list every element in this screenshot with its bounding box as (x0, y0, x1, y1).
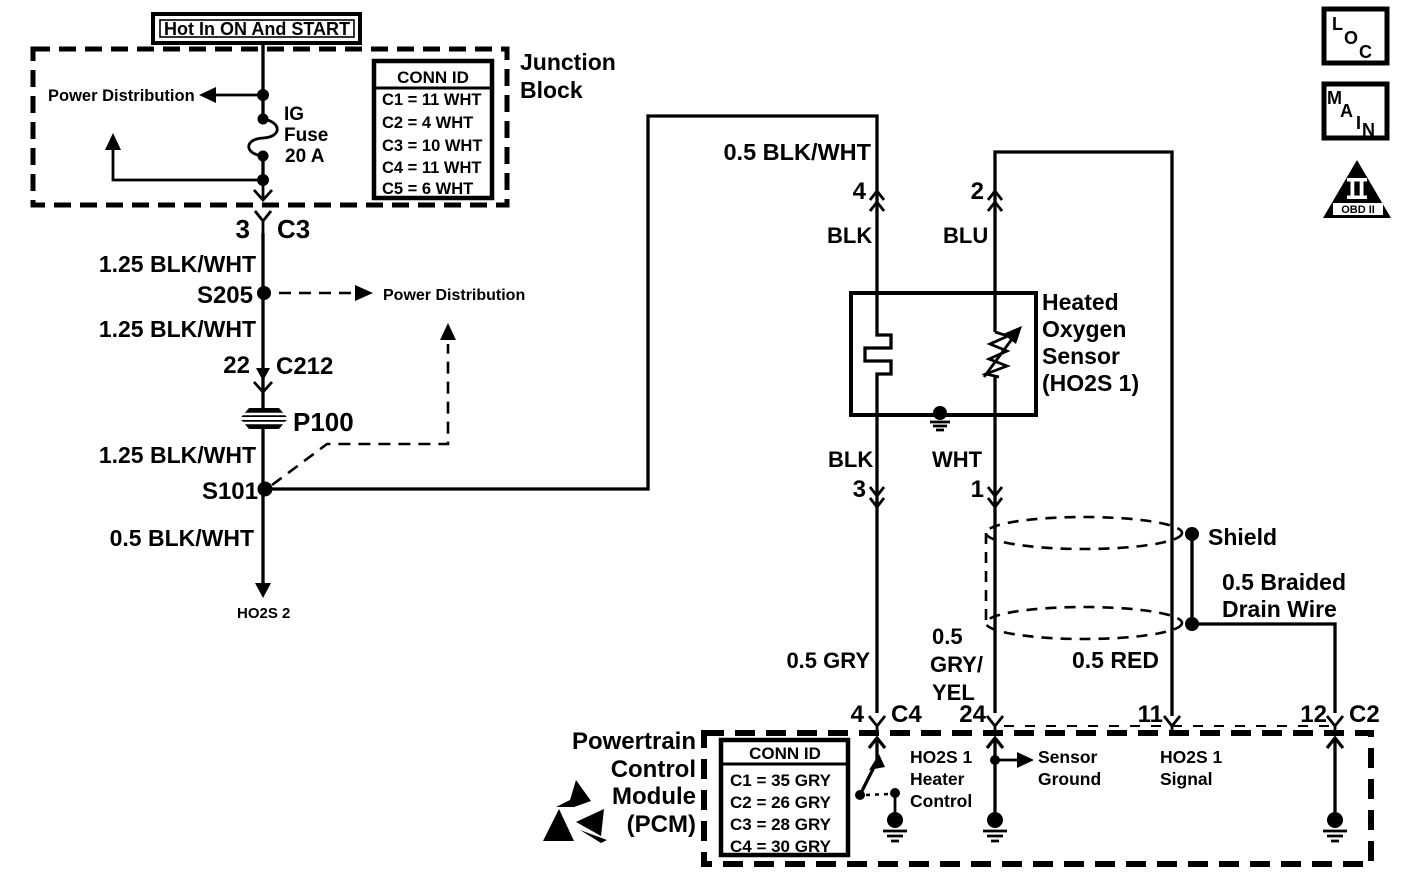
svg-text:20 A: 20 A (285, 146, 325, 167)
svg-text:3: 3 (236, 214, 250, 244)
sensor zigzag element (986, 332, 1008, 377)
connector cup pin 11 (1164, 716, 1180, 734)
svg-text:2: 2 (971, 178, 984, 205)
heater element (square meander) (865, 293, 891, 415)
svg-text:Shield: Shield (1208, 524, 1277, 550)
arrow up (lower-left branch) (105, 133, 121, 150)
label HO2S 1 Heater Control (910, 747, 973, 811)
PCM sensor ground (pin 24) (987, 738, 1034, 812)
svg-text:12: 12 (1300, 701, 1327, 728)
svg-text:Heated: Heated (1042, 289, 1119, 315)
svg-text:Signal: Signal (1160, 769, 1213, 789)
svg-text:O: O (1344, 28, 1358, 48)
wire S101 to heater circuit (right, up, right) (265, 116, 877, 489)
svg-text:I: I (1356, 113, 1361, 133)
svg-text:C4 = 30 GRY: C4 = 30 GRY (730, 837, 832, 856)
wire WHT below sensor to PCM pin 24 (993, 415, 996, 713)
svg-text:C3 = 28 GRY: C3 = 28 GRY (730, 815, 832, 834)
OBD II triangle symbol (1323, 160, 1391, 218)
svg-text:HO2S 1: HO2S 1 (1160, 747, 1223, 767)
svg-text:Powertrain: Powertrain (572, 728, 696, 755)
svg-text:4: 4 (853, 178, 867, 205)
svg-text:IG: IG (284, 104, 304, 125)
svg-text:0.5 BLK/WHT: 0.5 BLK/WHT (110, 525, 254, 551)
svg-text:0.5 GRY: 0.5 GRY (786, 648, 870, 673)
arrow to Power Distribution (left) (199, 87, 216, 103)
svg-text:Fuse: Fuse (284, 125, 328, 146)
svg-text:WHT: WHT (932, 447, 983, 472)
svg-text:C3: C3 (277, 214, 310, 244)
svg-text:0.5 BLK/WHT: 0.5 BLK/WHT (723, 139, 871, 165)
svg-text:CONN ID: CONN ID (397, 68, 469, 87)
svg-text:Block: Block (520, 77, 583, 103)
grommet P100 (236, 408, 292, 429)
ground (heater control) (883, 812, 907, 841)
connector cup pin 24 (987, 716, 1003, 734)
svg-text:C5 = 6 WHT: C5 = 6 WHT (382, 180, 473, 198)
svg-text:Power Distribution: Power Distribution (383, 287, 525, 304)
svg-text:(PCM): (PCM) (627, 811, 696, 838)
svg-text:11: 11 (1138, 701, 1163, 728)
dashed route S101 to power distribution arrow (272, 323, 456, 485)
label Sensor Ground (1038, 747, 1101, 789)
svg-text:1.25 BLK/WHT: 1.25 BLK/WHT (99, 316, 256, 342)
svg-text:4: 4 (851, 701, 865, 728)
svg-text:22: 22 (223, 352, 250, 379)
sensor element wire WHT inside box (993, 293, 996, 415)
svg-text:HO2S 2: HO2S 2 (237, 605, 290, 622)
svg-text:Module: Module (612, 783, 696, 810)
MAIN symbol box (1324, 84, 1387, 140)
label HO2S 1 Signal (1160, 747, 1223, 789)
svg-text:S205: S205 (197, 282, 253, 309)
splice S205 dot (257, 286, 271, 300)
svg-text:P100: P100 (293, 407, 354, 437)
svg-text:S101: S101 (202, 478, 258, 505)
wire braided drain to PCM pin 12 (1192, 624, 1335, 713)
svg-text:1: 1 (971, 476, 984, 503)
PCM signal input (pin 12) (1327, 738, 1343, 812)
value label IG Fuse 20 A (284, 104, 328, 167)
svg-text:OBD II: OBD II (1341, 204, 1375, 216)
svg-text:C4: C4 (891, 701, 922, 728)
svg-text:Junction: Junction (520, 49, 616, 75)
splice S101 dot (258, 482, 273, 497)
svg-text:Hot In ON And START: Hot In ON And START (164, 19, 350, 39)
connector chevrons down (3) (870, 487, 884, 507)
svg-text:Power Distribution: Power Distribution (48, 87, 195, 105)
svg-text:N: N (1362, 120, 1375, 140)
svg-text:1.25 BLK/WHT: 1.25 BLK/WHT (99, 251, 256, 277)
PCM heater control driver (pin 4) (855, 738, 900, 812)
svg-text:24: 24 (959, 701, 986, 728)
junction block label (520, 49, 616, 103)
wire power distribution branch (209, 94, 263, 97)
arrow down into C3 (254, 180, 272, 200)
svg-text:C1 = 11 WHT: C1 = 11 WHT (382, 91, 482, 109)
svg-text:0.5 RED: 0.5 RED (1072, 647, 1159, 673)
connector C2 face dashed line (1004, 725, 1330, 727)
sensor case ground symbol (930, 422, 950, 430)
shield connection dots and link (1185, 527, 1199, 631)
connector chevrons (4) (870, 191, 884, 211)
svg-text:C: C (1359, 42, 1372, 62)
sensor case ground dot (933, 406, 947, 420)
svg-text:BLU: BLU (943, 223, 988, 248)
svg-text:GRY/: GRY/ (930, 652, 983, 677)
svg-text:HO2S 1: HO2S 1 (910, 747, 973, 767)
svg-text:BLK: BLK (828, 447, 873, 472)
svg-text:Sensor: Sensor (1038, 747, 1098, 767)
ground (signal) (1323, 812, 1347, 841)
svg-text:CONN ID: CONN ID (749, 744, 821, 763)
node power-distribution branch dot (257, 89, 269, 101)
PCM dashed box (704, 733, 1371, 864)
svg-text:C2 = 26 GRY: C2 = 26 GRY (730, 793, 832, 812)
sensor arrow diagonal (984, 326, 1022, 377)
svg-text:3: 3 (853, 476, 866, 503)
wire BLK below sensor to PCM pin 4 (875, 415, 878, 713)
svg-text:1.25 BLK/WHT: 1.25 BLK/WHT (99, 442, 256, 468)
svg-text:C2: C2 (1349, 701, 1380, 728)
svg-text:C2 = 4 WHT: C2 = 4 WHT (382, 114, 473, 132)
svg-text:(HO2S 1): (HO2S 1) (1042, 370, 1139, 396)
connector chevrons down (1) (988, 487, 1002, 507)
svg-text:C4 = 11 WHT: C4 = 11 WHT (382, 159, 482, 177)
wire lower-left branch (113, 146, 263, 180)
ESD sensitivity symbol (543, 780, 607, 843)
wire label 0.5 GRY/YEL (930, 624, 983, 705)
connector C212 arrow and chevron (254, 368, 272, 392)
wire main vertical below C3 (261, 233, 264, 585)
svg-text:0.5 Braided: 0.5 Braided (1222, 569, 1346, 595)
node lower branch dot (257, 174, 269, 186)
fuse IG Fuse 20 A (249, 114, 278, 162)
LOC symbol box (1324, 9, 1387, 63)
junction block dashed box (33, 49, 507, 205)
label 0.5 Braided Drain Wire (1222, 569, 1346, 622)
svg-text:0.5: 0.5 (932, 624, 963, 649)
connector chevrons (2) (988, 191, 1002, 211)
connector C3 cup (255, 211, 271, 233)
svg-text:Heater: Heater (910, 769, 965, 789)
svg-text:BLK: BLK (827, 223, 872, 248)
conn id table (PCM) (721, 740, 848, 856)
conn id table (junction block) (374, 61, 492, 198)
wire BLU from sensor up and right to signal drop (995, 152, 1172, 716)
svg-text:C1 = 35 GRY: C1 = 35 GRY (730, 771, 832, 790)
svg-text:C3 = 10 WHT: C3 = 10 WHT (382, 137, 482, 155)
connector cup pin 4 (869, 716, 885, 734)
arrow down to HO2S 2 (255, 583, 271, 598)
label Heated Oxygen Sensor (HO2S 1) (1042, 289, 1139, 396)
wire from Hot box into junction block (261, 43, 264, 121)
svg-text:A: A (1340, 101, 1353, 121)
svg-text:C212: C212 (276, 353, 333, 380)
svg-text:Control: Control (611, 756, 696, 783)
ground (sensor ground) (983, 812, 1007, 841)
svg-text:L: L (1332, 14, 1343, 34)
label box Hot In ON And START (153, 14, 360, 43)
svg-text:Drain Wire: Drain Wire (1222, 596, 1337, 622)
shield cylinder (dashed) (986, 517, 1182, 639)
connector cup pin 12 (1327, 716, 1343, 734)
label Powertrain Control Module (PCM) (572, 728, 696, 838)
dashed arrow to Power Distribution (S205) (279, 285, 373, 301)
svg-text:Ground: Ground (1038, 769, 1101, 789)
svg-text:Oxygen: Oxygen (1042, 316, 1126, 342)
svg-text:Control: Control (910, 791, 972, 811)
svg-text:Sensor: Sensor (1042, 343, 1120, 369)
sensor box HO2S 1 (851, 293, 1036, 415)
